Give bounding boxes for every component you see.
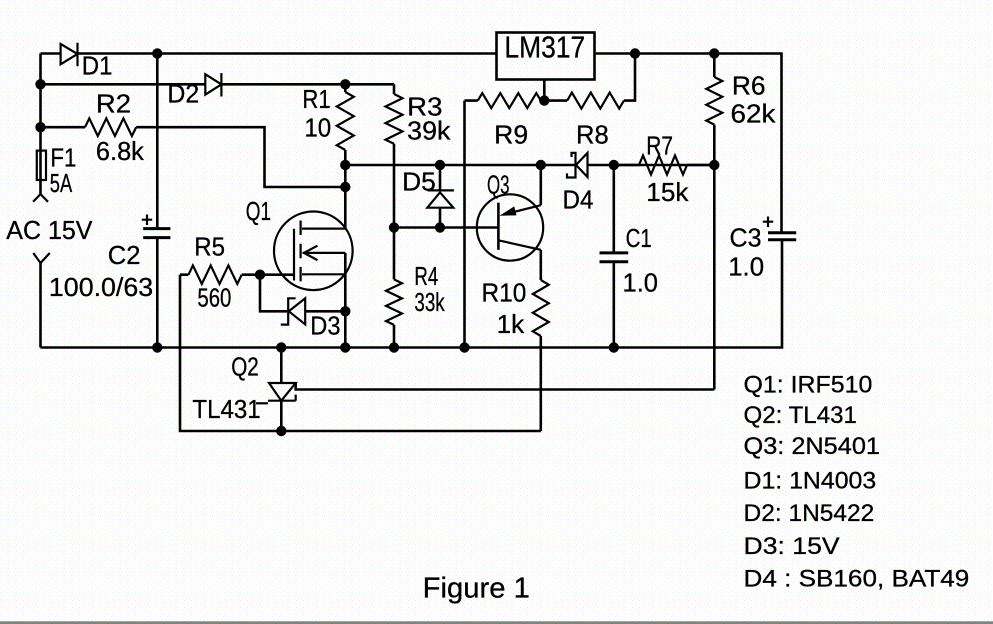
resistor R4 33k [386,279,402,325]
LM317 label [504,30,585,65]
label C1 [626,223,652,253]
wire D3 anode lead [305,310,345,313]
svg-text:Q3: 2N5401: Q3: 2N5401 [744,433,881,460]
wire D2 rail [41,83,395,86]
svg-text:R5: R5 [194,232,225,262]
C2 polarity plus [142,215,152,226]
node Q1 source ground [340,342,350,352]
C3 polarity plus [763,217,773,228]
node C2 ground [152,342,162,352]
node D5 cathode [435,160,445,170]
wire R10 bottom lead [539,336,542,431]
resistor R2 6.8k [85,118,136,136]
label R7 [646,131,673,161]
legend line D2 [744,500,875,527]
node R6-R7 junction [709,160,719,170]
label D4 [563,184,594,214]
svg-text:D4 : SB160, BAT49: D4 : SB160, BAT49 [744,566,970,593]
wire R9 left to ground [463,101,466,348]
resistor R5 560 [189,265,242,284]
legend line D3 [744,533,841,560]
svg-text:R7: R7 [646,131,673,161]
label TL431 [192,394,260,424]
label R2 [96,89,131,119]
svg-text:R9: R9 [494,120,528,150]
label AC 15V [6,215,93,245]
svg-text:D4: D4 [563,184,594,214]
legend line D4 [744,566,970,593]
wire R6/R7 node to ref rail [713,165,716,390]
label Q1 [246,196,271,226]
svg-text:D1: D1 [82,51,113,81]
label R4 value 33k [414,287,445,317]
capacitor C2 plates [143,229,170,238]
wire R7 leads [614,164,715,167]
svg-text:D2: 1N5422: D2: 1N5422 [744,500,875,527]
svg-text:1.0: 1.0 [623,268,659,298]
legend line Q3 [744,433,881,460]
label R4 [414,261,438,291]
regulator U1 LM317 box [497,33,595,80]
label R8 [576,120,609,150]
transistor Q1 IRF510 MOSFET [274,212,353,291]
svg-text:D1: 1N4003: D1: 1N4003 [744,467,877,494]
svg-text:R2: R2 [96,89,131,119]
label D1 [82,51,113,81]
label R10 [482,278,527,308]
svg-text:D2: D2 [167,79,199,109]
node C1 ground [609,342,619,352]
node Q2 anode [276,426,286,436]
wire R2 rail to Q1 drain node [41,127,346,187]
wire R9-R8 rail [465,54,636,101]
label R3 [407,92,442,122]
caption Figure 1 [423,573,530,605]
label D5 [402,166,436,196]
shunt regulator Q2 TL431 [256,383,296,403]
node D5 anode on base rail [435,222,445,232]
svg-text:Q2: TL431: Q2: TL431 [744,402,857,429]
svg-text:LM317: LM317 [504,30,585,65]
label R1 [302,84,330,114]
node R8 on output rail [630,48,640,58]
svg-text:Q1: IRF510: Q1: IRF510 [744,371,873,398]
wire AC input column through F1 [39,54,42,195]
svg-text:Q3: Q3 [487,170,510,200]
svg-text:R1: R1 [302,84,330,114]
svg-text:1k: 1k [497,309,526,339]
resistor R9 [478,93,541,108]
wire C2 column [156,54,159,348]
resistor R1 10 [337,92,354,150]
svg-text:D3: 15V: D3: 15V [744,533,841,560]
svg-text:TL431: TL431 [192,394,260,424]
label F1 rating 5A [50,168,73,198]
node C2 plus on top rail [152,48,162,58]
zener diode D3 15V [281,298,305,324]
node R2 left [35,122,45,132]
node Q2 cathode on bus [276,342,286,352]
node R6 top [709,48,719,58]
svg-text:39k: 39k [407,116,451,146]
resistor R8 [567,93,624,109]
svg-text:1.0: 1.0 [728,251,764,281]
wire top rail left (D1 node to LM317 input) [41,52,497,55]
resistor R3 39k [386,94,403,144]
wire TL431 ref feedback rail [296,383,715,390]
label R1 value 10 [304,113,331,143]
svg-text:C1: C1 [626,223,652,253]
label R5 value 560 [197,283,231,313]
resistor R6 62k [706,77,722,125]
node R2 to Q1 drain [340,182,350,192]
wire R4 bottom lead [393,325,396,348]
label Q3 [487,170,510,200]
legend line Q1 [744,371,873,398]
label C2 value 100.0/63 [49,272,153,302]
svg-text:R6: R6 [732,71,766,101]
svg-text:Q2: Q2 [231,352,259,382]
svg-text:6.8k: 6.8k [96,136,145,166]
label R7 value 15k [646,177,689,207]
svg-text:R10: R10 [482,278,527,308]
svg-text:C3: C3 [730,223,762,253]
label R2 value 6.8k [96,136,145,166]
resistor R10 1k [533,280,549,336]
svg-text:62k: 62k [731,99,777,129]
wire R3-R4 column [393,144,396,280]
schottky diode D4 [567,153,588,178]
svg-text:5A: 5A [50,168,73,198]
label R6 value 62k [731,99,777,129]
node LM317 adj [539,95,549,105]
svg-text:Q1: Q1 [246,196,271,226]
svg-text:AC 15V: AC 15V [6,215,93,245]
node R3-R4 junction [389,222,399,232]
svg-text:100.0/63: 100.0/63 [49,272,153,302]
wire D3 cathode loop [260,275,287,312]
label R10 value 1k [497,309,526,339]
AC input terminal lower [33,253,50,263]
node Q1 gate R5 D3 [255,270,265,280]
wire Q2 cathode lead [280,348,283,384]
svg-text:Figure 1: Figure 1 [423,573,530,605]
label R3 value 39k [407,116,451,146]
svg-text:D3: D3 [310,311,340,341]
label R9 [494,120,528,150]
label D2 [167,79,199,109]
resistor R7 15k [639,156,687,175]
wire top rail right (LM317 output to C3) [595,54,782,233]
node C1 top [609,160,619,170]
wire D5 anode lead [439,208,442,228]
svg-text:D5: D5 [402,166,436,196]
label C3 value 1.0 [728,251,764,281]
node R1 top on D2 rail [340,79,350,89]
wire AC return column [39,263,42,348]
node D3 anode on source column [340,306,350,316]
label F1 [50,143,76,173]
diode D2 [205,73,221,96]
label D3 [310,311,340,341]
svg-text:10: 10 [304,113,331,143]
wire Q3 emitter lead [539,165,542,205]
capacitor C1 plates [600,253,629,262]
node R4 ground [389,342,399,352]
wire R5 leads / Q1 gate [180,273,294,276]
wire Q2 anode lead [280,401,283,431]
svg-text:R8: R8 [576,120,609,150]
node R9 ground [459,342,469,352]
fuse F1 [37,151,46,180]
wire ground bus [41,240,783,348]
wire LM317 adj lead [543,80,546,101]
diode D1 [61,43,78,66]
wire TL431 anode rail [180,275,541,431]
label C3 [730,223,762,253]
wire Q3 base rail [394,226,498,229]
bottom border line [0,621,993,624]
wire middle rail (Q1 drain sense) [345,164,714,167]
svg-text:15k: 15k [646,177,689,207]
AC input terminal upper [33,194,48,202]
label C1 value 1.0 [623,268,659,298]
legend line D1 [744,467,877,494]
label R5 [194,232,225,262]
diode D5 [427,190,454,207]
node Q1 drain on middle rail [340,160,350,170]
wire Q1 source column [344,253,347,348]
node D2 anode [35,79,45,89]
legend line Q2 [744,402,857,429]
wire R3 top lead [393,84,396,94]
label R6 [732,71,766,101]
svg-text:560: 560 [197,283,231,313]
wire R1 bottom / Q1 drain lead [344,150,347,229]
wire C1 column [612,165,615,348]
transistor Q3 2N5401 PNP [477,194,543,260]
wire Q3 collector to R10 [539,250,542,280]
node Q3 emitter [536,160,546,170]
wire R6 leads [713,54,716,166]
svg-text:C2: C2 [108,240,141,270]
capacitor C3 plates [768,233,796,240]
label C2 [108,240,141,270]
wire R1 top lead [344,84,347,92]
wire D5 cathode lead [439,165,442,190]
svg-text:33k: 33k [414,287,445,317]
label Q2 [231,352,259,382]
